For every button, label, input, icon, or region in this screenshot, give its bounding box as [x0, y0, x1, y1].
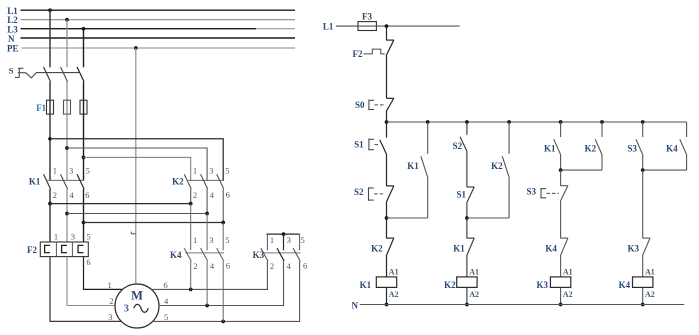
svg-text:F2: F2: [27, 245, 37, 255]
wire K2 pole1 down: [190, 189, 192, 204]
wire K1-K2 bus phase2: [67, 213, 207, 215]
K4 pole 2 contact: [201, 248, 208, 261]
motor M 3~: [115, 284, 159, 328]
overload F2 NC contact: [386, 39, 394, 41]
wire phase1 through fuse: [49, 100, 51, 114]
svg-text:K3: K3: [627, 243, 639, 253]
wire S1 NC down: [466, 203, 468, 238]
S2 actuator: [368, 187, 370, 201]
wire overload to motor terminal 1: [84, 257, 123, 290]
wire coil K2 to N: [466, 287, 468, 304]
switch S pole 1 blade: [44, 67, 51, 82]
svg-text:3: 3: [209, 235, 213, 245]
K2 linkage: [188, 179, 224, 181]
svg-text:K4: K4: [170, 250, 182, 260]
wire phase3 through fuse: [83, 100, 85, 114]
wire coil K1 to N: [386, 287, 388, 304]
wire phase1 fuse to K1: [49, 114, 51, 180]
svg-text:A2: A2: [645, 290, 655, 299]
K3 pole 3 contact: [293, 248, 300, 261]
PE conductor tick: [131, 232, 136, 234]
wire K2 to K4 pole3: [222, 223, 224, 251]
svg-text:A1: A1: [563, 267, 573, 276]
wire K4 NO down rung4: [686, 155, 688, 171]
junction K2 pin2 / K4 pin1: [189, 202, 193, 206]
svg-text:3: 3: [69, 165, 73, 175]
wire K4 pole1 to terminal6 wire: [190, 261, 192, 289]
svg-text:S: S: [9, 66, 14, 76]
wire K4 pole2 to terminal4 wire: [206, 261, 208, 305]
junction L3 tap: [82, 27, 86, 31]
wire S2 to S1 NC: [466, 151, 468, 187]
svg-text:K1: K1: [544, 144, 556, 154]
K2 pole 1 contact: [184, 174, 191, 189]
wire K1 NO down rung3: [560, 155, 562, 171]
svg-text:K2: K2: [371, 244, 383, 254]
coil K2: [457, 277, 477, 288]
junction K4 pin6 on terminal5 wire: [221, 320, 225, 324]
svg-text:2: 2: [193, 190, 197, 200]
svg-text:S1: S1: [354, 140, 364, 150]
svg-text:5: 5: [164, 312, 168, 322]
K3 pole 1 contact: [261, 248, 268, 261]
junction rung4 join: [641, 168, 645, 172]
F2 trip linkage: [364, 49, 385, 54]
wire K1 pole3 to overload: [83, 189, 85, 242]
K1 linkage: [48, 179, 85, 181]
control bus wire: [387, 121, 687, 123]
K1 hold NO contact: [421, 156, 428, 177]
wire motor terminal 5 to K3 pin6: [153, 261, 300, 321]
K1 pole 2 contact: [61, 174, 68, 189]
svg-text:5: 5: [225, 235, 229, 245]
wire S2 to K2 contact: [386, 202, 388, 238]
wire N rail control: [360, 304, 685, 306]
svg-text:3: 3: [124, 303, 130, 315]
S1 NC contact rung2: [467, 186, 475, 188]
svg-text:F3: F3: [362, 12, 372, 22]
svg-text:4: 4: [210, 261, 215, 271]
S3 actuator: [540, 188, 542, 199]
svg-text:S1: S1: [456, 189, 466, 199]
junction K3 star-point: [282, 232, 286, 236]
svg-text:3: 3: [209, 165, 213, 175]
svg-text:F2: F2: [353, 49, 363, 59]
svg-text:2: 2: [109, 296, 113, 306]
svg-text:S3: S3: [526, 187, 536, 197]
wire K2 pole3 down: [222, 189, 224, 223]
svg-text:K1: K1: [360, 280, 372, 290]
K4 pole 3 contact: [217, 248, 224, 261]
junction phase1 bus left: [48, 202, 52, 206]
svg-text:K1: K1: [29, 176, 41, 186]
S1 linkage dashed: [375, 144, 380, 146]
svg-text:K2: K2: [585, 144, 597, 154]
junction phase3 tap to K2: [82, 156, 86, 160]
svg-text:3: 3: [71, 231, 75, 241]
wire K2 to K4 pole2: [206, 214, 208, 251]
svg-text:5: 5: [225, 165, 229, 175]
overload relay F2 body: [40, 242, 88, 257]
wire K2 hold down: [508, 177, 510, 218]
junction bus K1 hold: [426, 120, 430, 124]
wire S1 to S2: [386, 154, 388, 186]
junction bus rung3 K2: [600, 120, 604, 124]
wire motor terminal 6 to K3 pin2: [151, 261, 267, 289]
wire PE down to motor frame: [135, 48, 137, 284]
svg-text:N: N: [352, 300, 359, 310]
junction phase2 bus left: [65, 212, 69, 216]
svg-text:PE: PE: [7, 44, 19, 54]
S0 linkage dashed: [375, 104, 386, 106]
junction N rung2: [465, 303, 469, 307]
svg-text:N: N: [8, 34, 15, 44]
svg-text:A1: A1: [389, 267, 399, 276]
svg-text:1: 1: [54, 231, 58, 241]
S3 NC contact rung3: [560, 185, 568, 187]
svg-text:5: 5: [301, 235, 305, 245]
svg-text:A1: A1: [645, 267, 655, 276]
svg-text:K1: K1: [453, 244, 465, 254]
junction K2 pin4 / K4 pin3: [205, 212, 209, 216]
junction bus rung4 S3: [641, 120, 645, 124]
junction bus K2 hold: [507, 120, 511, 124]
svg-text:2: 2: [270, 261, 274, 271]
svg-text:K4: K4: [545, 243, 557, 253]
wire phase3 rail to switch: [83, 29, 85, 68]
wire PE rail: [22, 47, 296, 49]
svg-text:1: 1: [270, 235, 274, 245]
K4 NC contact rung3: [560, 237, 568, 239]
coil K3: [550, 277, 570, 288]
wire phase2 switch to fuse: [66, 82, 68, 100]
wire S3 to K4 NC: [560, 201, 562, 238]
wire phase1 switch to fuse: [49, 82, 51, 100]
wire K2 hold rejoin: [467, 217, 509, 219]
wire bus to K1 NO rung3: [560, 122, 562, 137]
wire K1 NC to coil K2: [466, 256, 468, 277]
wire K3 pin3 stub: [283, 234, 285, 250]
svg-text:1: 1: [53, 165, 57, 175]
wire phase1 rail to switch: [49, 10, 51, 67]
coil K4: [633, 277, 653, 288]
junction phase2 tap to K2: [65, 146, 69, 150]
wire K1-K2 bus phase1: [50, 203, 191, 205]
wire S0 to bus: [386, 111, 388, 122]
fuse F1 pole 2: [64, 100, 71, 114]
wire motor terminal 4 to K3 pin4: [159, 261, 284, 305]
wire F3 through and right: [358, 25, 460, 27]
wire rung3 parallel join: [561, 169, 602, 171]
wire L1 rail: [21, 9, 296, 11]
junction bus rung2: [465, 120, 469, 124]
svg-text:M: M: [131, 288, 143, 302]
svg-text:2: 2: [53, 190, 57, 200]
wire phase2 fuse to K1: [66, 114, 68, 180]
fuse F1 pole 3: [80, 100, 87, 114]
wire F2 to S0: [386, 56, 388, 99]
junction N rung4: [641, 303, 645, 307]
svg-text:6: 6: [303, 260, 307, 270]
svg-text:3: 3: [108, 312, 112, 322]
junction phase1 tap to K2: [48, 137, 52, 141]
wire K3 pin1 stub: [266, 234, 268, 250]
S0 actuator: [368, 100, 370, 111]
svg-text:S0: S0: [355, 100, 365, 110]
wire K2 to K4 pole1: [190, 204, 192, 251]
switch S handle symbol: [15, 68, 24, 77]
svg-text:6: 6: [85, 190, 89, 200]
S2 NC contact: [386, 185, 394, 187]
K4 NO contact rung4: [680, 139, 687, 154]
svg-text:1: 1: [108, 280, 112, 290]
wire join to K3 NC rung4: [642, 170, 644, 238]
wire S3 NO down rung4: [642, 155, 644, 171]
wire K1 hold down: [427, 177, 429, 218]
junction control feed: [385, 24, 389, 28]
junction rung2 hold node: [465, 216, 469, 220]
wire bus corner to K4 NO: [686, 122, 688, 137]
svg-text:6: 6: [226, 190, 230, 200]
wire L3 rail: [21, 28, 296, 30]
svg-text:A1: A1: [469, 267, 479, 276]
junction rung3 join: [559, 168, 563, 172]
switch S pole 3 blade: [77, 67, 84, 82]
wire K2 NO down rung3: [601, 155, 603, 171]
junction phase3 bus left: [82, 221, 86, 225]
svg-text:K2: K2: [172, 176, 184, 186]
svg-text:6: 6: [86, 257, 90, 267]
svg-text:A2: A2: [389, 290, 399, 299]
wire phase1 to K2 pin5: [50, 139, 223, 180]
K2 NO contact rung3: [595, 139, 602, 154]
wire K2 pole2 down: [206, 189, 208, 214]
svg-text:K1: K1: [407, 161, 419, 171]
wire coil K3 to N: [560, 287, 562, 304]
wire phase3 to K2 pin1: [84, 157, 191, 180]
junction L1 tap: [48, 8, 52, 12]
K1 pole 1 contact: [44, 174, 51, 189]
wire bus to S2 NO: [466, 122, 468, 135]
svg-text:K4: K4: [666, 144, 678, 154]
junction N rung1: [385, 303, 389, 307]
svg-text:3: 3: [287, 235, 291, 245]
wire K4 pole3 to terminal5 wire: [222, 261, 224, 321]
wire rung4 parallel join: [643, 169, 687, 171]
wire join to S3 NC: [560, 170, 562, 186]
wire bus to K2 NO rung3: [601, 122, 603, 137]
K3 NC contact rung4: [642, 237, 650, 239]
wire K1 pole1 to overload: [49, 189, 51, 242]
S0 NC contact: [386, 97, 394, 99]
K4 pole 1 contact: [184, 248, 191, 261]
F2 heater phase2: [62, 245, 67, 252]
wire N rail: [21, 37, 296, 39]
wire K4 NC to coil K3: [560, 256, 562, 277]
S2 NO contact rung2: [460, 137, 467, 151]
wire overload to motor terminal 2: [67, 257, 115, 306]
K1 pole 3 contact: [77, 174, 84, 189]
fuse F1 pole 1: [47, 100, 54, 114]
junction K4 pin2 on terminal6 wire: [189, 288, 193, 292]
svg-text:K4: K4: [619, 280, 631, 290]
wire L1 to fuse F3: [336, 25, 358, 27]
junction K2 pin6 / K4 pin5: [221, 221, 225, 225]
junction L2 tap: [65, 18, 69, 22]
svg-text:1: 1: [193, 165, 197, 175]
wire K3 pin5 stub: [299, 234, 301, 250]
wire K1-K2 bus phase3: [84, 222, 224, 224]
svg-text:6: 6: [226, 260, 230, 270]
S3 linkage dashed: [547, 192, 559, 194]
S1 actuator: [368, 139, 370, 151]
wire K3 NC to coil K4: [642, 256, 644, 277]
svg-text:S2: S2: [453, 141, 463, 151]
junction K4 pin4 on terminal4 wire: [205, 304, 209, 308]
svg-text:5: 5: [86, 231, 90, 241]
K2 NC contact rung1: [386, 237, 394, 239]
F2 heater phase1: [45, 245, 50, 252]
junction PE tap: [134, 46, 138, 50]
wire phase2 rail to switch: [66, 20, 68, 68]
S1 NO contact: [380, 140, 387, 155]
K2 pole 2 contact: [201, 174, 208, 189]
junction N rung3: [559, 303, 563, 307]
F2 heater phase3: [78, 245, 83, 252]
coil K1: [376, 277, 396, 288]
wire K1 hold rejoin: [387, 217, 428, 219]
svg-text:K2: K2: [491, 161, 503, 171]
switch S pole 2 blade: [61, 67, 68, 82]
wire bus to K1 hold contact: [427, 122, 429, 154]
wire L2 rail: [21, 19, 296, 21]
K3 linkage: [262, 252, 301, 254]
K2 hold NO contact: [502, 156, 509, 177]
S2 linkage dashed: [374, 193, 384, 195]
K4 linkage: [185, 252, 224, 254]
svg-text:5: 5: [86, 165, 90, 175]
svg-text:A2: A2: [469, 290, 479, 299]
wire feed to F2 contact: [386, 26, 388, 40]
wire bus to K2 hold contact: [508, 122, 510, 154]
wire phase3 fuse to K1: [83, 114, 85, 180]
fuse F3: [358, 22, 376, 31]
svg-text:1: 1: [193, 235, 197, 245]
svg-text:4: 4: [287, 261, 292, 271]
svg-text:K2: K2: [444, 280, 456, 290]
K3 star-point bus: [266, 233, 299, 235]
S3 NO contact rung4: [636, 139, 643, 154]
svg-text:4: 4: [210, 190, 215, 200]
K1 NO contact rung3: [554, 139, 561, 154]
svg-text:2: 2: [193, 261, 197, 271]
wire phase2 to K2 pin3: [67, 148, 207, 180]
junction bus rung3 K1: [559, 120, 563, 124]
wire bus to S1: [386, 122, 388, 138]
K3 pole 2 contact: [277, 248, 284, 261]
svg-text:S3: S3: [627, 144, 637, 154]
wire bus to S3 NO rung4: [642, 122, 644, 137]
junction rung1 hold node: [385, 216, 389, 220]
K2 pole 3 contact: [217, 174, 224, 189]
wire coil K4 to N: [642, 287, 644, 304]
switch S linkage: [24, 73, 79, 78]
svg-text:L1: L1: [323, 21, 334, 31]
wire K2 contact to coil K1: [386, 256, 388, 277]
wire overload to motor terminal 3: [50, 257, 121, 322]
svg-text:K3: K3: [536, 280, 548, 290]
svg-text:S2: S2: [354, 187, 364, 197]
K1 NC contact rung2: [467, 237, 475, 239]
junction bus rung1: [385, 120, 389, 124]
svg-text:6: 6: [164, 280, 168, 290]
svg-text:A2: A2: [563, 290, 573, 299]
wire K1 pole2 to overload: [66, 189, 68, 242]
svg-text:F1: F1: [36, 103, 46, 113]
wire phase3 switch to fuse: [83, 82, 85, 100]
wire phase2 through fuse: [66, 100, 68, 114]
